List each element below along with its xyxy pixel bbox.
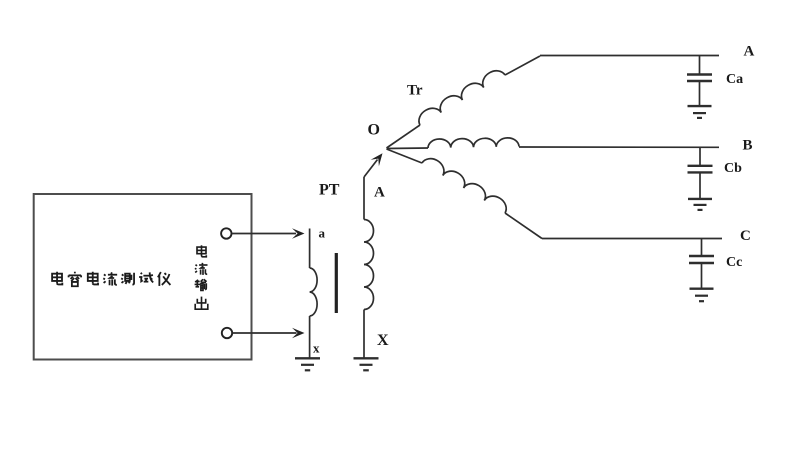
svg-text:Ca: Ca: [726, 72, 743, 87]
svg-text:a: a: [319, 226, 326, 241]
vertical label text 电流输出: [195, 245, 208, 309]
svg-text:X: X: [377, 332, 389, 349]
capacitor Cb: [699, 147, 701, 166]
wire arrow PT A to node O: [364, 160, 378, 178]
wire arrow bottom output to PT x: [233, 332, 297, 334]
PT primary winding a-x: [309, 229, 311, 269]
svg-text:PT: PT: [319, 182, 340, 199]
svg-text:B: B: [743, 138, 753, 154]
instrument box 电容电流测试仪: [34, 194, 252, 360]
svg-text:x: x: [313, 341, 320, 356]
PT secondary winding A-X: [363, 177, 365, 220]
capacitor Cc: [701, 239, 703, 257]
svg-text:C: C: [740, 228, 751, 244]
svg-text:A: A: [744, 44, 755, 60]
ground at PT primary x: [295, 357, 320, 359]
terminal circle bottom output: [222, 328, 232, 338]
ground of Cc: [690, 288, 714, 290]
wire phase C: [542, 238, 722, 240]
ground at PT secondary X: [354, 357, 379, 359]
box label text 电容电流测试仪: [52, 272, 170, 287]
ground of Cb: [688, 198, 712, 200]
Tr winding phase A: [387, 125, 421, 148]
svg-text:Cc: Cc: [726, 255, 742, 270]
Tr winding phase B: [387, 147, 429, 150]
svg-text:O: O: [368, 122, 380, 139]
wire arrow top output to PT a: [232, 233, 296, 235]
terminal circle top output: [221, 228, 231, 238]
ground of Ca: [688, 105, 712, 107]
capacitor Ca: [699, 56, 701, 75]
svg-text:A: A: [374, 185, 385, 201]
Tr winding phase C: [387, 149, 423, 163]
wire phase A: [540, 55, 719, 57]
svg-text:Tr: Tr: [407, 83, 423, 99]
wire phase B: [519, 146, 719, 148]
svg-text:Cb: Cb: [724, 161, 742, 176]
PT core bar: [335, 253, 338, 313]
